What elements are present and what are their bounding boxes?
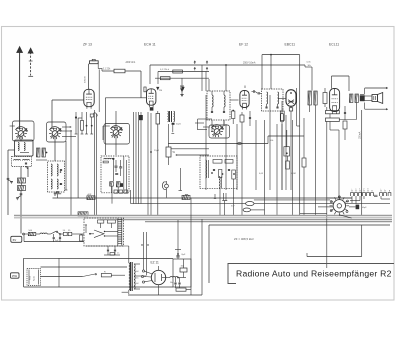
decoupling node B+ [262,54,300,215]
bottom return bus [128,285,202,295]
detector line to volume [268,135,304,137]
primary feed wire [86,245,129,247]
T2 windings and trimmers [211,91,225,113]
HT rail right side [361,110,363,215]
vibrator G1 [330,196,350,216]
tube V1 ZF13 [84,89,94,108]
terminal label box 6V [11,236,22,242]
svg-text:EZ 11: EZ 11 [151,261,159,265]
AVC line long [168,124,268,145]
coupling caps V3 to T3 [252,90,262,94]
wires below strip [350,196,390,204]
pin strip labels [351,189,385,191]
chassis bus thick gray [14,216,392,218]
band switch wafer S1d [203,120,230,138]
row tick arrows [194,61,208,70]
iron-core coil L3 [18,178,26,191]
resistors below pack 2 [219,170,236,216]
svg-text:ADR Uml.: ADR Uml. [126,61,137,64]
switch wires to wafer S1c [115,111,117,155]
RF choke on heater line 2 [243,208,265,212]
padder caps inside osc pack [115,160,123,176]
driver transformer T4 [308,91,317,215]
svg-text:0,1 22k: 0,1 22k [103,69,111,71]
IF transformer T2 dashed can [207,91,230,120]
IF transformer T3 dashed can [262,89,284,111]
right column parts tile7 [259,111,296,175]
svg-text:1n: 1n [117,253,119,255]
ground bus lower left [24,235,84,242]
AGC branch line [176,154,209,155]
trimmer blocks bottom of pack [110,182,123,193]
vibrator transformer T6 [129,246,146,294]
terminal label box 15W [11,273,20,278]
heater line 2 [131,190,390,204]
rail x326 [326,122,328,269]
grid cap lead V1 [88,64,90,89]
svg-text:ZF 13: ZF 13 [83,43,92,47]
long vertical rails right-centre [206,95,293,215]
vibrator diagonal wire [300,213,352,218]
grid resistor V5 [323,88,327,107]
svg-text:EBC11: EBC11 [285,43,296,47]
long vertical bus wires centre [112,112,148,215]
svg-text:150mA: 150mA [359,131,362,139]
heater leads to rectifier [141,232,148,276]
V3 cathode parts [232,110,252,215]
connector pin strip [351,190,391,196]
trimmer caps between coils [36,148,47,160]
antenna (car aerial) [17,47,23,130]
oscillator coil can dashed box [48,161,65,192]
junction grid leak [150,113,160,215]
rail x304 [302,118,306,215]
osc coil pack 2 dashed box [200,156,237,189]
socket blob under V2 [150,107,154,110]
svg-text:250V 10mA: 250V 10mA [243,62,256,65]
smoothing caps 50nF [170,278,181,289]
filter resistor 150 [180,259,187,278]
screen dropper box 1 [326,107,340,114]
bus thin dark line [100,219,392,221]
loudspeaker [365,93,383,104]
coils inside pack 2 [206,160,235,189]
svg-text:50µF: 50µF [362,207,368,209]
title box [228,264,394,284]
rectifier output box [173,220,191,295]
speaker feed arrows [365,87,388,110]
terminal blocks row [114,190,128,193]
strip link marks [374,195,378,196]
heater line 1 [53,194,353,199]
grid resistor row 1 [158,70,209,84]
screen dropper box 2 [326,114,340,197]
reservoir cap 8uF [175,220,186,259]
osc grid line to V2 [105,98,146,155]
band switch wafer S1c [103,124,130,145]
grid cap trimmer [90,59,103,112]
blocking cap black [139,115,143,120]
tube V2 ECH11 [147,89,156,107]
svg-text:250v: 250v [135,278,139,280]
band switch wafer S1a [10,121,34,141]
vibrator contact dots [330,196,348,213]
svg-text:50/100: 50/100 [85,76,87,83]
wafer S1d feed bends [195,119,212,130]
paper sheet border [2,27,395,301]
cap drop pair above bus [214,193,227,215]
screen feed line 250V [150,64,305,91]
osc coil pack dashed box [101,156,129,193]
rectifier tube V6 EZ11 [151,266,165,285]
ground marks left of heater line [54,192,62,198]
coils inside L1 box [18,143,29,153]
svg-text:0,1M: 0,1M [291,173,296,175]
speaker field dashed box [27,269,41,286]
svg-text:Feld: Feld [30,276,32,280]
V4 right-side wires [297,88,300,126]
feedback loop over V5 [332,76,350,91]
bus extra line [145,221,392,223]
svg-text:15W: 15W [12,275,18,278]
battery input chain [23,230,84,241]
filter caps to ground [53,234,62,242]
coils inside osc can [51,164,62,189]
output transformer T5 [339,94,364,120]
svg-text:AJR: AJR [88,193,92,196]
svg-text:ZF = 468,5 kHz: ZF = 468,5 kHz [234,237,254,241]
grid resistor row 2 [155,77,209,80]
wires antenna section [8,137,28,234]
svg-text:Spule: Spule [34,275,36,281]
RF choke on heater line 1 [246,202,254,206]
B+ loop rectangle [202,219,390,295]
bottom loop wires [24,258,173,287]
output filter box [176,288,191,291]
heater dropper hatched AJR [87,193,95,200]
choke after rectifier [166,277,186,279]
mid line y148.8 [171,148,209,150]
suppressor parts below box [104,246,120,255]
dial lamp [162,181,168,198]
svg-text:ECL11: ECL11 [329,43,339,47]
antenna coil can L1 [15,140,34,156]
vibrator reed symbol [89,230,110,238]
svg-text:22µF: 22µF [154,150,160,152]
avc tick arrows [157,87,185,89]
tube V4 EBC11 [286,90,296,190]
svg-text:Radione Auto und Reiseempfänge: Radione Auto und Reiseempfänger R2 [236,268,392,278]
vibrator wiring [318,197,352,207]
svg-text:50n: 50n [170,282,173,284]
svg-text:2M: 2M [159,90,162,92]
PSU top boxes [98,220,116,228]
svg-text:0,1 22k d: 0,1 22k d [160,69,170,71]
V4 grid feed from T3 [278,98,286,190]
tone cap V5 [343,106,347,140]
wires into T2 [202,65,224,132]
coils inside osc pack [103,156,127,193]
tube V3 EF12 [240,91,249,110]
ift feed transformer T1 [168,111,182,133]
transformer primary winding ladder [118,219,122,246]
field supply wires [41,267,129,292]
heater return to vibrator [254,199,330,201]
plate resistor R5 22k [102,69,141,98]
tube V5 ECL11 [330,89,340,114]
band switch wafer S1b [47,122,77,142]
dropper on chassis line [78,212,88,216]
cap left of V2 top [144,87,146,92]
wire x183 [179,168,183,191]
metal rectifier W [166,144,176,166]
PSU internal wires [85,224,118,236]
buffer cap black [349,205,367,210]
coupling cap line [305,61,312,90]
wave trap box L2 [12,157,32,167]
electrolytic to ground [180,78,183,96]
V1 bottom components cluster [75,112,94,134]
rail x191 down [190,198,192,221]
V6 pin contacts [135,270,153,285]
bypass cap to ground x8 [7,178,13,183]
wires osc section [52,100,84,215]
svg-text:50µV: 50µV [176,124,182,126]
svg-text:5nF: 5nF [231,206,235,208]
antenna 2 (dashed aux) [28,48,33,76]
padding trimmer below V2 [156,111,160,215]
return wire bottom right [307,225,362,257]
svg-text:EF 12: EF 12 [239,43,248,47]
V1 cathode line to bus [93,110,97,215]
V3 grid top lead [230,86,245,101]
vibrator PSU dashed box [84,218,124,246]
svg-text:ECH 11: ECH 11 [144,43,156,47]
T3 windings [265,92,278,108]
svg-text:8µF: 8µF [182,254,186,256]
cap and ground below iron coil [16,194,22,200]
svg-text:6V: 6V [13,238,17,242]
